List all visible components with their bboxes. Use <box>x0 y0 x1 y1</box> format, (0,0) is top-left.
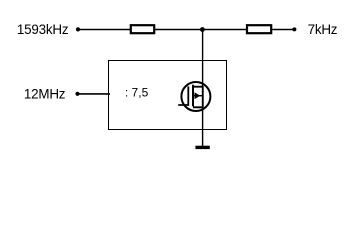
node junction top <box>200 27 205 32</box>
wire vertical junction to ground <box>202 30 204 147</box>
svg-text:12MHz: 12MHz <box>24 86 66 101</box>
transistor body circle <box>181 82 210 111</box>
transistor Q1 (MOSFET in circle) <box>178 82 210 111</box>
gate lead bottom-left <box>178 104 188 106</box>
internal drain-source vertical <box>202 86 204 108</box>
divider box U1 <box>109 61 227 130</box>
ground <box>195 146 209 149</box>
resistor R2 <box>247 25 271 33</box>
source stub <box>193 106 203 108</box>
drain stub <box>193 86 203 88</box>
gate bar <box>187 86 189 105</box>
channel bar <box>192 85 194 107</box>
body stub <box>193 95 203 97</box>
node 12MHz terminal <box>75 92 79 96</box>
wire 12MHz to divider box <box>78 93 111 95</box>
svg-text:: 7,5: : 7,5 <box>125 85 149 99</box>
wire top horizontal <box>78 29 295 31</box>
resistor R1 <box>131 25 154 33</box>
svg-text:1593kHz: 1593kHz <box>17 22 69 37</box>
body arrow <box>195 92 201 99</box>
node 1593kHz terminal <box>76 27 80 31</box>
node 7kHz terminal <box>292 27 296 31</box>
svg-text:7kHz: 7kHz <box>308 22 338 37</box>
